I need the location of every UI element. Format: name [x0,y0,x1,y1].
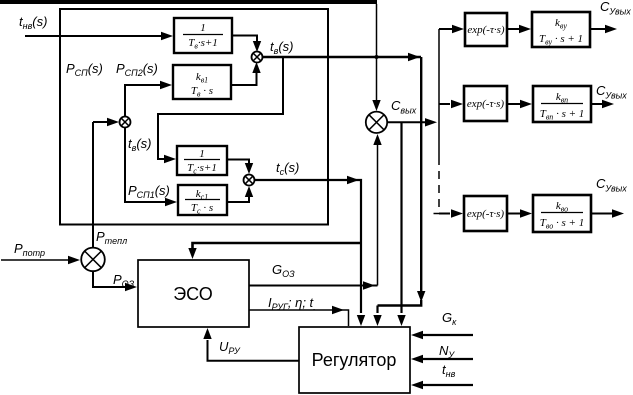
block D3 exp [464,196,507,231]
wire W4 to sum3 [227,193,249,202]
wire N_u input [421,358,473,360]
wire t_v feedback to W3 [158,57,283,159]
wire ESO top feed [193,243,362,249]
svg-text:tв(s): tв(s) [128,136,152,153]
wire t_c out to riser [254,180,361,313]
svg-text:tс(s): tс(s) [276,160,299,177]
wire K1 out [590,28,605,30]
wire P_OZ to ESO [93,271,126,287]
svg-text:exp(-τ·s): exp(-τ·s) [467,24,505,36]
block D1 exp [465,13,507,46]
bus vertical dashed [438,157,440,208]
wire K2 out [591,103,602,105]
summer S1 [252,52,263,63]
wire into S2 from left [93,121,110,123]
wire G_OZ riser to summer C [377,141,379,286]
wire U_RU [208,340,300,361]
summer C big [366,112,387,133]
svg-text:ЭСО: ЭСО [173,284,213,304]
block ESO [138,260,249,327]
wire K3 out [591,213,612,215]
svg-text:exp(-τ·s): exp(-τ·s) [467,208,505,220]
block K2 [533,86,591,122]
wire D1 to K1 [507,28,519,30]
block W4 kc1/(Tc s) [178,185,227,216]
svg-text:exp(-τ·s): exp(-τ·s) [467,98,505,110]
wire top bar drop to summer C [376,4,378,104]
wire W3 to sum3 [227,160,249,168]
wire D2 to K2 [507,103,520,105]
node crossing dot on t_v line [375,55,379,59]
summer P big [81,248,105,272]
wire branch C to regulator [400,122,402,313]
svg-text:Tс·s+1: Tс·s+1 [187,162,217,176]
wire W2 to sum1 [231,69,257,85]
block W1 1/(Tv s+1) [174,18,232,53]
svg-text:1: 1 [199,148,205,160]
svg-text:Tв · s: Tв · s [191,85,213,99]
outer box [60,9,328,225]
svg-text:Tс · s: Tс · s [191,202,213,216]
wire P vertical to big summer [92,122,94,248]
wire G_k input [421,334,473,336]
wire t_nv input [25,35,162,37]
block K3 [533,195,591,232]
wire sum1 out t_v [262,56,421,58]
svg-text:tв(s): tв(s) [270,39,294,56]
svg-text:Регулятор: Регулятор [312,350,397,370]
wire chain2 input [439,103,450,105]
wire summer C out [387,121,429,123]
wire chain3 input [439,213,450,215]
block D2 exp [464,86,507,121]
svg-text:1: 1 [200,22,206,34]
bus end tick [434,213,446,215]
wire t_nv input to regulator [421,384,473,386]
wire chain1 input [439,28,452,30]
block Regulator [299,327,410,393]
wire P_SP2 riser [125,85,161,117]
wire riser to regulator (from t_v corner) [376,306,378,314]
svg-text:Tв·s+1: Tв·s+1 [188,37,218,51]
wire D3 to K3 [507,213,520,215]
block W3 1/(Tc s+1) [177,146,227,176]
summer S3 [244,175,255,186]
summer S2 [120,117,131,128]
bus vertical solid [438,29,440,157]
wire W1 to sum1 [232,36,257,46]
wire P_potr input [1,259,68,261]
wire I_RU out [249,310,349,326]
block W2 kv1/(Tv s) [173,65,231,99]
top bar [0,0,377,4]
wire t_v corner down [420,57,422,296]
wire S2 down to W4 [125,127,165,202]
wire G_OZ out [249,285,378,287]
block K1 [532,12,590,47]
